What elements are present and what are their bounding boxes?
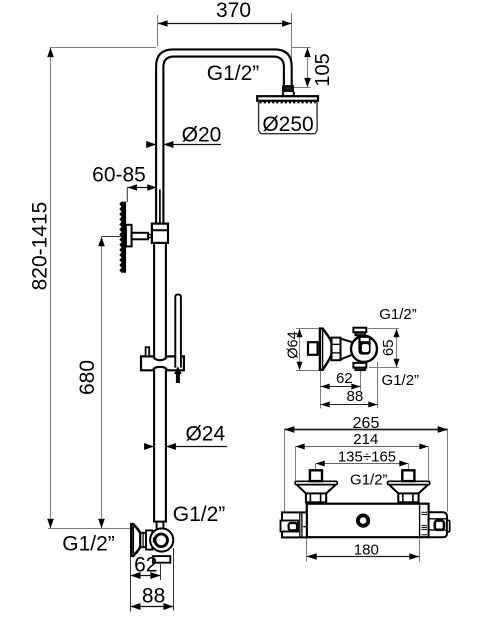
lower column pipe Ø24 [153,243,155,522]
valve bottom stub [153,556,170,563]
hand shower wand [175,295,181,368]
side view cartridge circle [351,336,377,362]
left end cap [282,512,307,537]
dimension 88 (side view) [377,362,379,408]
right supply stub [402,470,414,481]
inlet nut [140,533,146,547]
valve inner ring [155,534,168,547]
side view body wedge [341,339,359,360]
side view bottom connection [353,363,366,368]
inlet collar [146,530,152,549]
dimension Ø20 (upper pipe) [147,144,156,146]
svg-text:88: 88 [347,388,364,405]
column clamp collar [152,224,168,243]
wall flange bell (bottom inlet) [131,524,140,556]
svg-text:Ø250: Ø250 [262,113,313,136]
valve body circle [150,528,173,551]
side view knob [358,335,370,355]
svg-text:G1/2”: G1/2” [382,372,420,389]
right end cap [429,512,447,537]
side view top connection [353,328,366,333]
wall bracket arm [132,233,148,240]
svg-text:370: 370 [216,0,251,22]
dimension 105 (head drop) [292,47,311,49]
hose direction arrow [174,366,182,383]
right supply nut [398,493,418,502]
svg-text:Ø64: Ø64 [285,331,301,358]
hand shower holder on column [141,356,184,370]
column joint above valve [153,521,167,523]
dimension 370 (top width) [157,15,159,46]
wall bracket plate [126,225,132,247]
svg-text:G1/2”: G1/2” [62,533,115,556]
left supply escutcheon cone [295,481,337,484]
svg-text:65: 65 [380,339,397,356]
dimension Ø24 (lower pipe) [145,446,154,448]
center screw ring [358,515,368,525]
svg-text:G1/2”: G1/2” [350,472,388,489]
svg-text:214: 214 [353,431,378,448]
svg-text:62: 62 [134,553,157,576]
svg-text:88: 88 [142,584,165,607]
svg-text:G1/2”: G1/2” [207,62,260,85]
svg-text:135÷165: 135÷165 [338,448,396,465]
shower head nozzle dotted line [260,102,317,104]
svg-text:G1/2”: G1/2” [173,503,226,526]
dimension 88 (bottom inlet) [173,548,175,611]
body detail marks [422,511,428,513]
shower arm pipe inner wall [163,57,284,224]
dimension 820-1415 (overall height) [50,47,156,49]
head connector nut [283,86,293,91]
svg-text:105: 105 [312,53,334,86]
head ball joint [283,91,295,96]
svg-text:680: 680 [76,360,99,395]
svg-text:G1/2”: G1/2” [379,306,417,323]
baseline extension at bottom inlet [48,528,130,530]
svg-text:Ø20: Ø20 [182,123,222,146]
side view flange bell [320,329,332,370]
shower head label box [259,101,318,134]
right supply escutcheon cone [388,481,430,484]
svg-text:820-1415: 820-1415 [29,202,52,291]
bracket neck [148,234,152,238]
dimension 62 (bottom inlet) [130,557,132,612]
mixer body [307,504,429,538]
svg-text:60-85: 60-85 [92,163,146,186]
dimension 65 (side view height) [367,328,399,330]
svg-text:Ø24: Ø24 [185,422,225,445]
left supply stub [310,470,322,481]
holder locking knob [146,347,150,356]
svg-text:62: 62 [336,370,353,387]
side view nut [332,338,341,361]
dimension Ø64 (flange diameter) [296,328,324,330]
telescope inner tube line [159,190,161,224]
wall section with hatching [119,201,126,272]
shower head top plate [257,96,318,101]
dimension 680 (rail length) [102,236,122,238]
svg-text:180: 180 [354,541,379,558]
dimension 62 (side view) [320,371,322,409]
left supply nut [306,493,326,502]
side view wall stub [308,342,318,355]
shower arm pipe outer wall [156,49,292,224]
